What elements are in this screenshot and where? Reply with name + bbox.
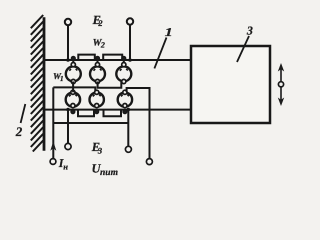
label 1: [165, 25, 173, 39]
svg-text:2: 2: [100, 41, 105, 50]
svg-text:2: 2: [15, 124, 23, 139]
label W2: [93, 37, 105, 49]
terminal E2 left: [65, 19, 71, 62]
wire: core link column 2: [98, 82, 122, 88]
fluxgate core top row 1: [66, 56, 81, 83]
wire: core link column 1: [72, 82, 74, 93]
label I_n: [58, 156, 68, 171]
wire: link to terminal D: [127, 88, 150, 159]
label 3: [246, 23, 253, 37]
winding W1 jumper 2: [104, 110, 122, 117]
terminal E2 right: [127, 18, 133, 62]
leader line 3: [237, 36, 249, 62]
terminal U left: [65, 108, 71, 150]
terminal I_n: [50, 159, 56, 165]
double arrow movement: [278, 63, 284, 106]
wire: return line to I terminal: [53, 122, 128, 124]
wire: winding W1 left link: [53, 87, 95, 91]
fluxgate core top row 3: [116, 56, 131, 83]
fluxgate core bottom row 2: [90, 90, 104, 113]
winding W2 jumper 1: [78, 55, 95, 60]
svg-text:1: 1: [165, 25, 173, 39]
svg-text:н: н: [63, 161, 68, 171]
label 2: [15, 124, 23, 139]
winding W1 jumper 1: [78, 110, 94, 117]
box 3 measuring unit: [191, 46, 270, 123]
fluxgate core bottom row 3: [118, 90, 132, 113]
terminal D: [146, 159, 152, 165]
svg-text:3: 3: [246, 23, 253, 37]
svg-text:3: 3: [97, 145, 103, 155]
fluxgate core top row 2: [90, 56, 105, 83]
label E2: [92, 13, 104, 28]
winding W2 jumper 2: [103, 55, 122, 60]
wire: lower bus from wall to box: [44, 109, 191, 111]
terminal U right: [125, 108, 131, 153]
label E3: [91, 140, 103, 155]
wall (hatched support): [31, 15, 44, 152]
leader line 1: [154, 38, 166, 69]
wire I_n with arrow: [50, 87, 56, 158]
svg-text:2: 2: [97, 18, 103, 28]
fluxgate core bottom row 1: [66, 90, 80, 113]
wire: top bus from wall to box: [44, 59, 191, 61]
svg-text:1: 1: [60, 74, 64, 83]
svg-text:пит: пит: [100, 168, 118, 178]
leader line 2: [21, 104, 26, 123]
label W1: [53, 71, 64, 83]
label U_pit: [92, 162, 118, 179]
